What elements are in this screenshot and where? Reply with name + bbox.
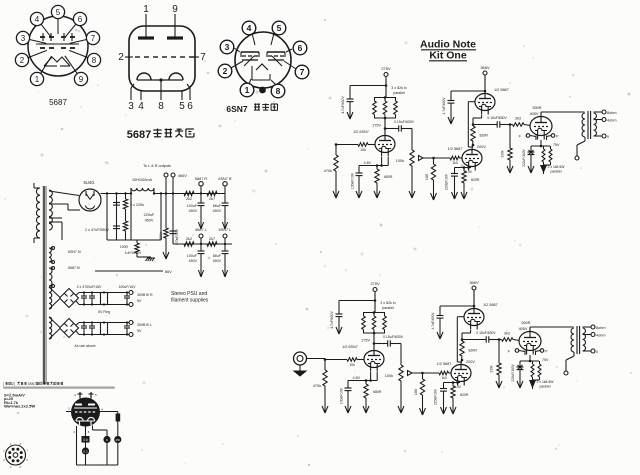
svg-text:3k3: 3k3: [504, 332, 510, 336]
svg-text:2 x 220k: 2 x 220k: [130, 203, 144, 207]
svg-text:250: 250: [116, 439, 121, 442]
svg-text:220uF/100V: 220uF/100V: [511, 363, 515, 381]
svg-text:F': F': [545, 350, 548, 354]
svg-text:470uF/50V: 470uF/50V: [175, 228, 179, 245]
svg-text:5U4G: 5U4G: [84, 180, 95, 185]
svg-text:3: 3: [21, 34, 26, 43]
svg-text:parallel: parallel: [382, 306, 394, 310]
svg-text:1uF/1000V: 1uF/1000V: [125, 251, 142, 255]
svg-text:1: 1: [245, 85, 250, 95]
svg-text:0: 0: [596, 350, 598, 354]
svg-text:4.7uF/630V: 4.7uF/630V: [431, 312, 435, 330]
svg-text:1M0: 1M0: [414, 389, 418, 396]
svg-text:2k7: 2k7: [209, 197, 215, 201]
svg-text:100uF/16V: 100uF/16V: [118, 285, 136, 289]
svg-text:300B fil R: 300B fil R: [137, 293, 153, 297]
svg-text:450V: 450V: [189, 259, 198, 263]
svg-text:1k0: 1k0: [441, 376, 447, 380]
svg-text:2k7: 2k7: [209, 237, 215, 241]
svg-text:5: 5: [277, 23, 282, 33]
svg-text:68uF: 68uF: [213, 204, 222, 208]
svg-text:275V: 275V: [370, 281, 380, 286]
svg-text:820R: 820R: [471, 178, 480, 182]
svg-text:4.7uF/630V: 4.7uF/630V: [330, 310, 334, 328]
svg-text:7: 7: [300, 67, 305, 77]
svg-text:6SN7 L: 6SN7 L: [219, 228, 232, 232]
svg-text:8ohm: 8ohm: [596, 326, 606, 330]
svg-text:330k: 330k: [159, 232, 163, 240]
svg-text:100k: 100k: [396, 159, 404, 163]
svg-text:8: 8: [158, 101, 164, 112]
svg-text:6.3: 6.3: [83, 449, 87, 453]
svg-text:220uF: 220uF: [144, 213, 155, 217]
svg-text:1/2 5687: 1/2 5687: [437, 362, 452, 366]
svg-text:3 x 82k in: 3 x 82k in: [380, 301, 395, 305]
svg-text:0.6: 0.6: [83, 438, 88, 442]
svg-text:[: [: [3, 382, 4, 386]
svg-text:820R: 820R: [460, 393, 469, 397]
svg-text:5: 5: [179, 101, 185, 112]
svg-text:100uF: 100uF: [187, 204, 198, 208]
svg-text:366V: 366V: [469, 280, 479, 285]
svg-text:9: 9: [172, 4, 178, 15]
svg-text:6SN7 fil: 6SN7 fil: [68, 250, 81, 254]
svg-text:6: 6: [78, 15, 83, 24]
svg-text:450V: 450V: [213, 259, 222, 263]
svg-text:5687: 5687: [127, 129, 151, 141]
svg-text:7: 7: [200, 52, 206, 63]
svg-text:3 x 82k in: 3 x 82k in: [391, 86, 406, 90]
svg-text:2 x 1k8 6W: 2 x 1k8 6W: [548, 165, 566, 169]
svg-text:parallel: parallel: [551, 170, 562, 174]
svg-text:68uF: 68uF: [213, 254, 222, 258]
svg-text:1: 1: [35, 75, 40, 84]
svg-text:0.15uF/630V: 0.15uF/630V: [383, 335, 404, 339]
svg-text:5V Reg: 5V Reg: [98, 310, 110, 314]
svg-text:6SN7 R: 6SN7 R: [218, 177, 232, 181]
svg-text:100uF: 100uF: [187, 254, 198, 258]
svg-text:100uF/10V: 100uF/10V: [351, 172, 355, 189]
svg-text:2 x 47uF/550V: 2 x 47uF/550V: [85, 228, 110, 232]
svg-text:4: 4: [138, 101, 144, 112]
svg-text:6: 6: [106, 438, 108, 442]
svg-text:1M0: 1M0: [425, 174, 429, 181]
svg-text:220uF/100V: 220uF/100V: [522, 148, 526, 166]
svg-text:466V: 466V: [178, 174, 187, 178]
svg-text:2]: 2]: [12, 382, 15, 386]
svg-text:820R: 820R: [469, 349, 478, 353]
svg-text:8: 8: [276, 86, 281, 96]
svg-text:F': F': [556, 135, 559, 139]
svg-text:1/2 5687: 1/2 5687: [448, 147, 463, 151]
svg-text:1k0: 1k0: [452, 161, 458, 165]
svg-text:To L & R outputs: To L & R outputs: [143, 164, 171, 168]
svg-text:4.8V: 4.8V: [353, 376, 361, 380]
svg-text:275V: 275V: [381, 66, 391, 71]
svg-text:220uF/16V: 220uF/16V: [445, 173, 449, 190]
svg-text:5687: 5687: [49, 98, 67, 107]
svg-text:10H/200mA: 10H/200mA: [132, 178, 153, 182]
svg-text:220uF/16V: 220uF/16V: [434, 388, 438, 405]
svg-text:5687 L: 5687 L: [195, 228, 207, 232]
svg-text:4ohm: 4ohm: [596, 334, 606, 338]
svg-text:405V: 405V: [530, 112, 539, 116]
svg-text:2 x 4700uF/16V: 2 x 4700uF/16V: [77, 285, 102, 289]
svg-text:500R: 500R: [532, 106, 541, 110]
svg-text:3: 3: [225, 42, 230, 52]
svg-text:175V: 175V: [372, 124, 381, 128]
svg-text:Wa=max.2x2.5W: Wa=max.2x2.5W: [4, 404, 35, 409]
svg-text:450V: 450V: [189, 209, 198, 213]
svg-text:2: 2: [20, 56, 25, 65]
svg-text:4ohm: 4ohm: [607, 119, 617, 123]
svg-text:5V: 5V: [137, 329, 142, 333]
svg-text:Kit One: Kit One: [429, 50, 466, 62]
svg-text:10k: 10k: [349, 363, 355, 367]
svg-text:2k2: 2k2: [186, 237, 192, 241]
svg-text:86V: 86V: [165, 270, 172, 274]
svg-text:4.7uF/630V: 4.7uF/630V: [341, 95, 345, 113]
svg-text:4: 4: [35, 15, 40, 24]
svg-text:75V: 75V: [553, 143, 560, 147]
svg-text:5: 5: [56, 8, 61, 17]
svg-text:5687 R: 5687 R: [195, 177, 208, 181]
svg-text:8ohm: 8ohm: [607, 111, 617, 115]
svg-text:680R: 680R: [384, 175, 393, 179]
svg-text:300B fil L: 300B fil L: [137, 323, 152, 327]
svg-text:Stereo PSU and: Stereo PSU and: [171, 291, 207, 297]
svg-text:6: 6: [298, 43, 303, 53]
svg-text:7: 7: [91, 34, 96, 43]
svg-text:parallel: parallel: [393, 91, 405, 95]
svg-text:75V: 75V: [542, 358, 549, 362]
svg-text:200V: 200V: [477, 145, 486, 149]
svg-text:366V: 366V: [480, 65, 490, 70]
svg-text:450V: 450V: [145, 219, 154, 223]
svg-text:1/2 5687: 1/2 5687: [483, 303, 498, 307]
svg-text:330k: 330k: [490, 365, 494, 373]
svg-text:8: 8: [92, 56, 97, 65]
svg-text:100R: 100R: [120, 245, 129, 249]
svg-text:6SN7: 6SN7: [28, 382, 36, 386]
svg-text:0.15uF/630V: 0.15uF/630V: [394, 120, 415, 124]
svg-text:3k3: 3k3: [515, 117, 521, 121]
svg-text:6: 6: [187, 101, 193, 112]
svg-text:10k: 10k: [360, 148, 366, 152]
svg-text:3: 3: [128, 101, 134, 112]
svg-text:5687 fil: 5687 fil: [68, 266, 80, 270]
svg-text:1/2 5687: 1/2 5687: [494, 88, 509, 92]
svg-text:470k: 470k: [324, 169, 332, 173]
svg-text:4.7uF/630V: 4.7uF/630V: [442, 97, 446, 115]
svg-text:200V: 200V: [466, 360, 475, 364]
svg-text:2: 2: [223, 66, 228, 76]
svg-text:2k2: 2k2: [186, 197, 192, 201]
svg-text:6SN7: 6SN7: [226, 104, 248, 114]
svg-text:175V: 175V: [361, 339, 370, 343]
svg-text:4: 4: [247, 23, 252, 33]
svg-text:100k: 100k: [385, 374, 393, 378]
svg-text:1/2 6SN7: 1/2 6SN7: [342, 345, 358, 349]
svg-text:500R: 500R: [521, 321, 530, 325]
svg-text:1: 1: [143, 4, 149, 15]
svg-text:0: 0: [607, 135, 609, 139]
svg-text:9: 9: [79, 75, 84, 84]
svg-text:4.8V: 4.8V: [364, 161, 372, 165]
svg-text:5V: 5V: [137, 299, 142, 303]
svg-text:470k: 470k: [313, 384, 321, 388]
svg-text:As use above: As use above: [74, 344, 95, 348]
svg-text:parallel: parallel: [540, 385, 551, 389]
svg-text:filament supplies: filament supplies: [171, 298, 209, 304]
svg-text:820R: 820R: [480, 134, 489, 138]
svg-text:680R: 680R: [373, 390, 382, 394]
svg-text:0.15uF/630V: 0.15uF/630V: [476, 331, 496, 335]
svg-text:330k: 330k: [501, 150, 505, 158]
svg-text:100uF/10V: 100uF/10V: [340, 387, 344, 404]
svg-text:2 x 1k8 6W: 2 x 1k8 6W: [537, 380, 555, 384]
svg-text:1/2 6SN7: 1/2 6SN7: [353, 130, 369, 134]
svg-text:405V: 405V: [519, 327, 528, 331]
svg-text:0.15uF/630V: 0.15uF/630V: [487, 116, 507, 120]
svg-text:450V: 450V: [213, 209, 222, 213]
svg-text:2: 2: [118, 52, 124, 63]
